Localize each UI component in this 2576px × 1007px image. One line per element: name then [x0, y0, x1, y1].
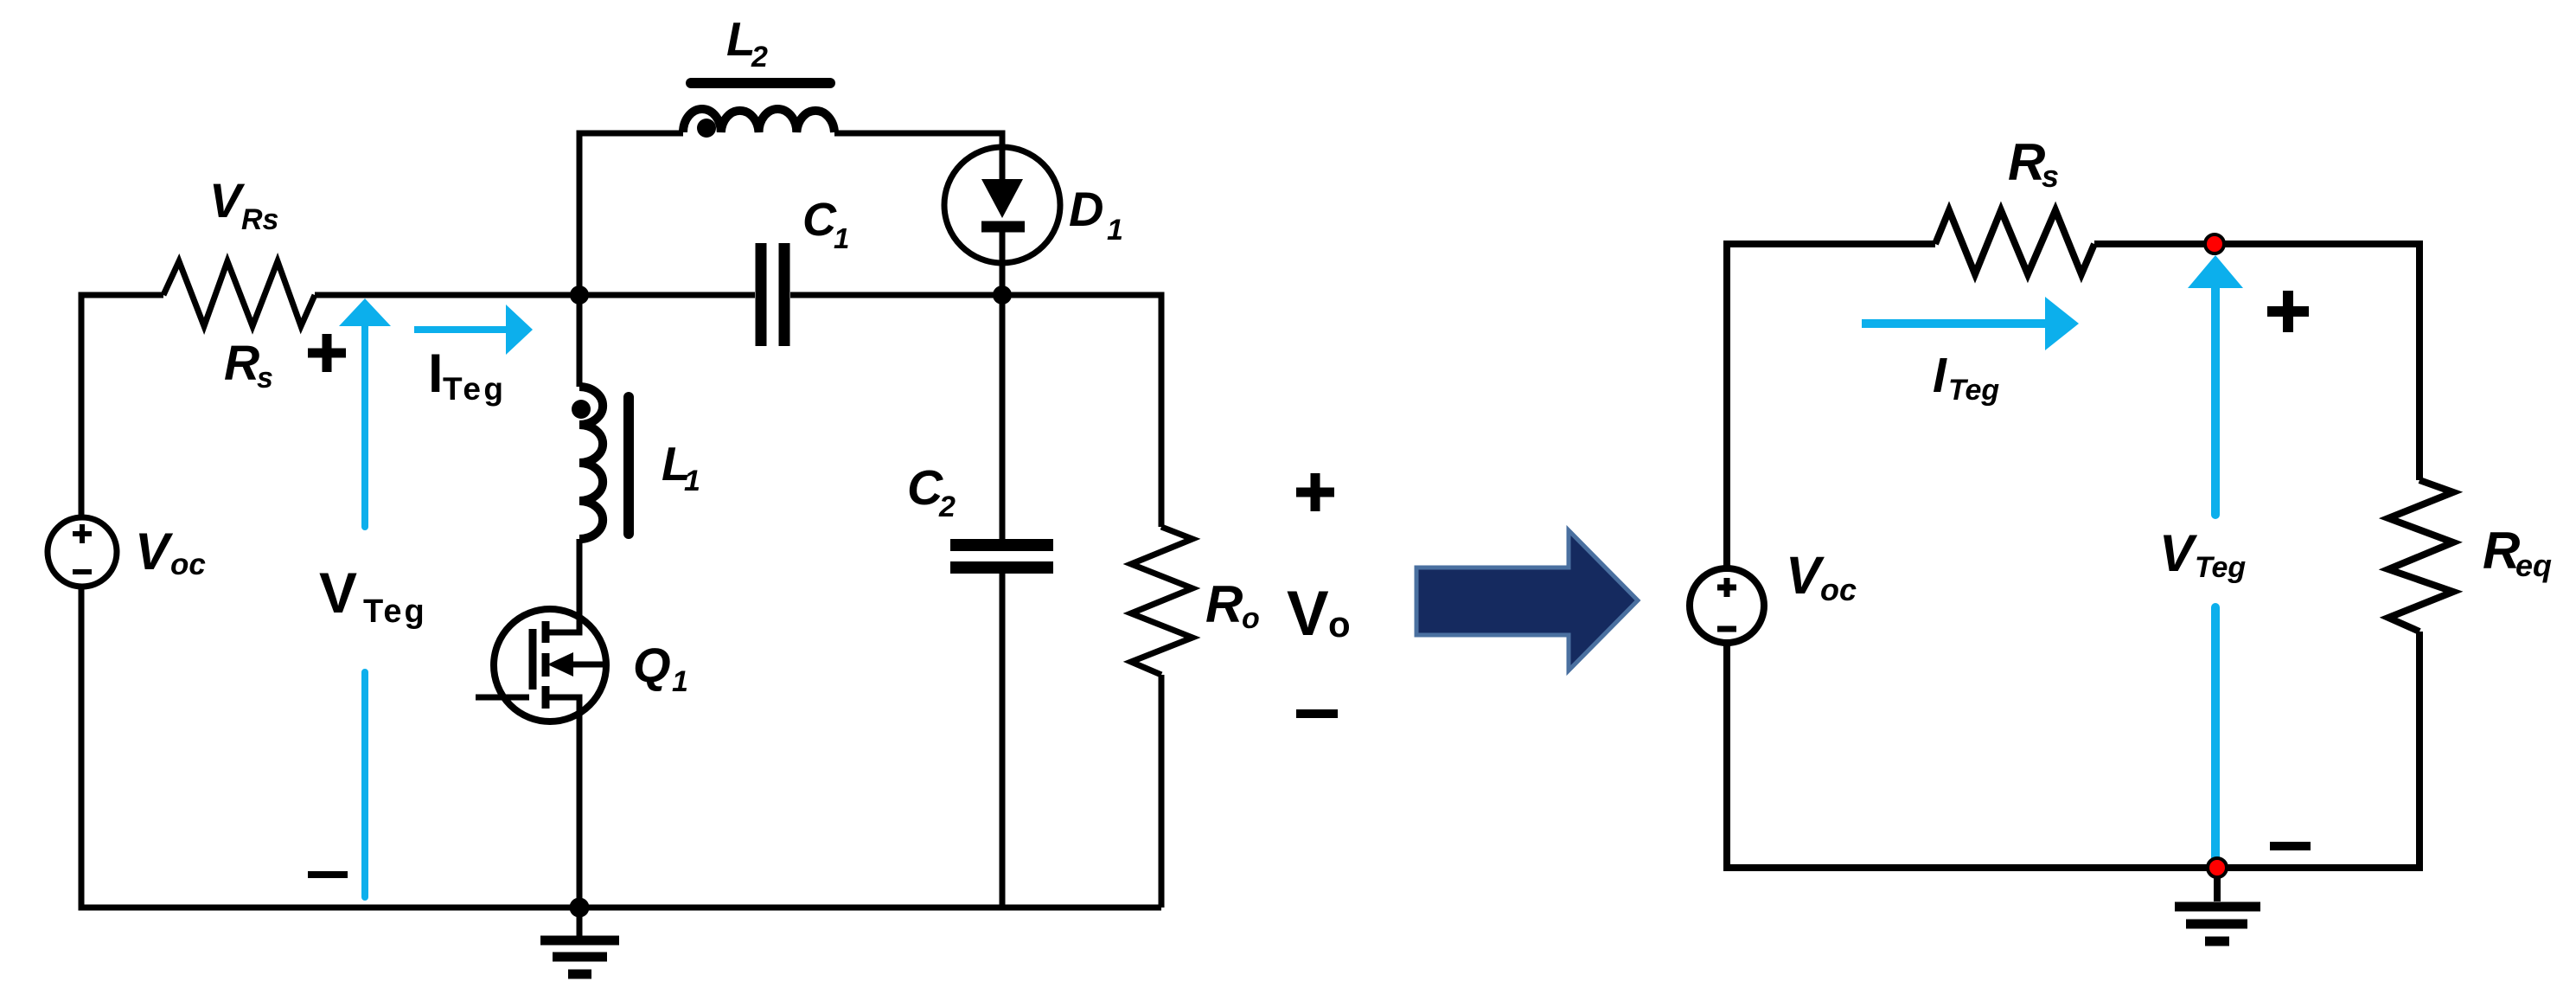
plus sign Vo [1296, 473, 1334, 511]
label D1 [1069, 182, 1123, 247]
minus sign VTeg left [308, 871, 348, 878]
right bottom loop [1727, 632, 2419, 868]
label L2 [726, 12, 768, 74]
capacitor C2 plates [950, 545, 1053, 568]
wire node down to L1 [577, 295, 583, 387]
resistor Rs right [1935, 210, 2094, 274]
svg-text:Teg: Teg [1948, 374, 1999, 407]
voltage source V_oc right [1690, 568, 1764, 643]
label Rs right [2008, 133, 2059, 194]
wire C2 to bottom [1000, 574, 1006, 908]
svg-text:R: R [1205, 575, 1243, 633]
svg-text:R: R [2008, 133, 2045, 191]
Q1 gate bar [529, 629, 537, 690]
voltage source V_oc left [48, 517, 117, 587]
diode D1 circle [944, 147, 1060, 263]
resistor Rs left [163, 261, 315, 326]
svg-text:2: 2 [751, 41, 768, 74]
label Ro [1205, 575, 1260, 635]
wire D1 to node B [1000, 263, 1006, 295]
wire bottom-left corner and bottom wire [81, 587, 1161, 908]
resistor Req [2388, 480, 2453, 632]
label VTeg left [319, 561, 427, 630]
resistor Ro [1131, 527, 1192, 675]
label L1 [662, 437, 700, 497]
inductor L2 phase dot [697, 119, 716, 138]
wire top-left corner [81, 295, 163, 517]
svg-text:R: R [2483, 522, 2520, 580]
label C1 [802, 194, 849, 254]
red node dot bottom [2208, 858, 2227, 877]
label C2 [907, 460, 956, 523]
inductor L2 coil [683, 109, 834, 132]
cyan VTeg arrow left [339, 298, 533, 897]
wire Ro bottom [1159, 675, 1165, 908]
node B junction dot [993, 285, 1012, 305]
label Vo [1287, 579, 1351, 649]
svg-text:R: R [224, 336, 259, 391]
svg-text:D: D [1069, 182, 1103, 236]
inductor L1 phase dot [572, 400, 591, 419]
svg-text:C: C [907, 460, 943, 516]
label VTeg right [2159, 524, 2246, 584]
svg-text:V: V [1287, 579, 1329, 649]
svg-text:s: s [257, 362, 273, 394]
plus sign right [2267, 291, 2309, 332]
transistor Q1 circle [494, 609, 606, 722]
label Voc left [135, 523, 206, 581]
svg-text:V: V [135, 523, 174, 580]
svg-text:o: o [1242, 602, 1260, 635]
cyan ITeg arrow left [414, 326, 506, 333]
wire L2 to D1 [834, 133, 1002, 147]
label Rs [224, 336, 273, 394]
red node dot top [2205, 234, 2224, 253]
svg-text:Teg: Teg [443, 371, 507, 407]
svg-text:V: V [319, 561, 357, 625]
svg-text:V: V [2159, 524, 2198, 582]
svg-text:Rs: Rs [241, 203, 278, 236]
svg-text:1: 1 [1107, 214, 1123, 247]
label Req [2483, 522, 2552, 583]
Q1 gate lead [476, 695, 529, 701]
cyan ITeg arrow right [1862, 255, 2243, 860]
wire L1 to Q1 drain [548, 539, 579, 632]
label Voc right [1786, 546, 1857, 607]
cyan VTeg arrow right [2188, 255, 2243, 288]
svg-text:oc: oc [1820, 572, 1857, 607]
wire C1 to node B to Ro corner [790, 295, 1161, 527]
inductor L2 core bar [691, 78, 830, 88]
svg-text:C: C [802, 194, 837, 246]
svg-text:I: I [428, 343, 444, 404]
svg-text:1: 1 [672, 665, 688, 698]
svg-text:o: o [1328, 604, 1351, 645]
plus sign VTeg left [308, 334, 346, 372]
inductor L1 coil [579, 387, 603, 539]
svg-text:s: s [2042, 158, 2059, 194]
label V_Rs [209, 173, 278, 236]
svg-text:Q: Q [633, 638, 671, 692]
Q1 body stub with arrow [562, 662, 604, 668]
node A junction dot [570, 285, 589, 305]
wire Rs to C1 [315, 292, 755, 298]
minus sign Vo [1296, 709, 1338, 718]
svg-text:Teg: Teg [363, 593, 427, 630]
svg-text:oc: oc [170, 548, 206, 581]
wire Rs to top-right corner [2094, 244, 2419, 480]
Q1 source stub and lead [548, 697, 579, 908]
svg-text:eq: eq [2515, 548, 2552, 583]
svg-text:V: V [1786, 546, 1825, 605]
ground node junction dot [570, 898, 590, 918]
inductor L1 core bar [623, 397, 634, 534]
svg-text:I: I [1933, 348, 1947, 403]
svg-text:Teg: Teg [2195, 551, 2246, 584]
capacitor C1 plates [761, 243, 784, 346]
Q1 channel dashes [542, 621, 550, 709]
big block arrow [1416, 530, 1638, 670]
ground symbol right [2214, 868, 2221, 901]
label Q1 [633, 638, 688, 698]
label ITeg right [1933, 348, 1999, 407]
diode D1 triangle and bar [1000, 147, 1006, 263]
svg-text:1: 1 [834, 222, 849, 254]
svg-text:2: 2 [938, 491, 956, 523]
svg-text:1: 1 [684, 465, 700, 497]
right circuit top-left corner [1727, 244, 1935, 568]
wire node B down C2 [1000, 295, 1006, 539]
minus sign right [2270, 842, 2311, 850]
wire L2 left leg [579, 133, 683, 295]
label ITeg left [428, 343, 507, 407]
ground symbol left [577, 908, 583, 936]
svg-text:V: V [209, 173, 246, 228]
